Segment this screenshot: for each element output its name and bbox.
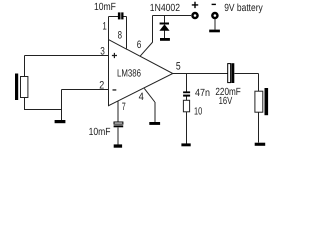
svg-text:8: 8 <box>118 30 122 42</box>
svg-text:16V: 16V <box>219 96 233 107</box>
svg-text:2: 2 <box>99 79 104 91</box>
svg-text:10mF: 10mF <box>89 127 111 138</box>
svg-text:9V battery: 9V battery <box>224 3 263 14</box>
svg-text:47n: 47n <box>195 88 210 99</box>
svg-text:4: 4 <box>139 91 144 103</box>
svg-text:1N4002: 1N4002 <box>150 3 180 14</box>
svg-text:6: 6 <box>137 39 142 51</box>
svg-text:3: 3 <box>100 46 105 58</box>
svg-text:10: 10 <box>194 106 202 117</box>
svg-text:LM386: LM386 <box>117 68 141 79</box>
svg-text:10mF: 10mF <box>94 2 116 13</box>
svg-text:7: 7 <box>122 101 126 113</box>
svg-text:5: 5 <box>176 60 181 72</box>
svg-text:1: 1 <box>102 20 106 32</box>
